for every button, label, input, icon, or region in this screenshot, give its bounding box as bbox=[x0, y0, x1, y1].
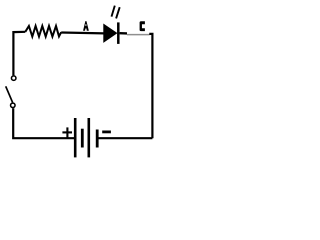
battery B1 short plate 1 bbox=[81, 129, 84, 148]
minus label bbox=[102, 130, 111, 133]
LED D1 triangle (anode) bbox=[104, 24, 117, 42]
node C label bbox=[140, 21, 145, 31]
battery B1 tall plate 1 (positive) bbox=[74, 118, 77, 157]
node A label bbox=[83, 21, 89, 31]
wire bottom-right (right corner to battery) bbox=[98, 137, 152, 139]
wire resistor to LED anode bbox=[61, 31, 104, 34]
LED light arrow 2 bbox=[116, 7, 120, 18]
wire faint run to corner bbox=[127, 34, 150, 36]
LED light arrow 1 bbox=[112, 6, 115, 17]
wire top-left (left vertical up from switch, corner, to resistor) bbox=[13, 32, 25, 76]
wire cathode stub bbox=[120, 32, 127, 35]
LED D1 cathode bar bbox=[117, 22, 120, 44]
battery B1 tall plate 2 bbox=[88, 118, 91, 157]
switch S1 blade (open, tilted left) bbox=[6, 86, 13, 102]
plus label bbox=[62, 127, 72, 137]
switch S1 upper contact bbox=[11, 76, 16, 81]
resistor R1 bbox=[25, 26, 61, 37]
wire top-right corner and down right side bbox=[149, 34, 152, 138]
battery B1 short plate (right, negative) bbox=[96, 130, 99, 148]
switch S1 lower contact bbox=[11, 103, 16, 108]
wire bottom-left (battery to left corner, up to switch) bbox=[13, 108, 74, 138]
